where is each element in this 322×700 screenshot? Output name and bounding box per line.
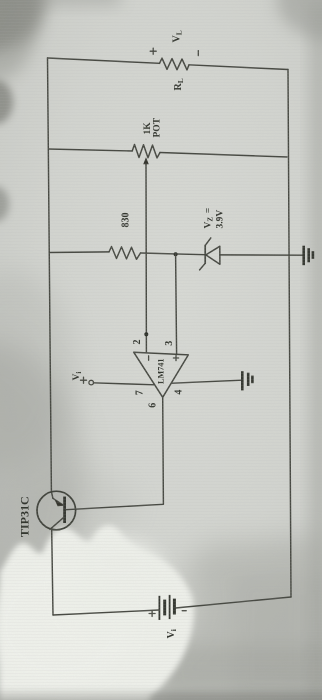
- wire: bottom rail left of battery: [53, 610, 159, 615]
- plus sign inside op-amp (rotated): [175, 355, 177, 360]
- wire: right rail: [288, 70, 291, 598]
- wire: pin 3: [176, 254, 177, 354]
- dark band along bottom edge: [0, 692, 322, 700]
- minus sign at battery: [182, 610, 186, 612]
- potentiometer 1K POT zigzag: [132, 145, 160, 158]
- ground symbol right (rotated): [302, 246, 305, 266]
- plus sign at battery: [151, 611, 153, 617]
- wire: left rail top (corner to transistor): [48, 58, 53, 498]
- ground symbol at pin 4 (rotated): [241, 371, 244, 390]
- top edge slight darkening: [0, 0, 120, 5]
- transistor Q1 TIP31C circle: [37, 491, 76, 530]
- plus sign at op-amp Vi terminal: [83, 377, 85, 383]
- wire: zener to ground (crosses right rail): [220, 254, 303, 256]
- minus sign inside op-amp (rotated): [148, 356, 150, 360]
- plus sign at RL left: [152, 48, 154, 54]
- pot wiper arrow + wire to pin 2: [145, 163, 147, 353]
- wire: 830 row left: [50, 251, 109, 254]
- transistor Q1 base bar: [63, 497, 66, 524]
- transistor Q1 emitter diagonal with arrow: [53, 498, 63, 504]
- resistor RL zigzag: [160, 58, 190, 70]
- resistor 830 zigzag: [109, 247, 141, 260]
- top-left dark corner shading: [0, 0, 46, 52]
- zener diode DZ (cathode bar with bent ends): [204, 245, 206, 263]
- wire: top rail right segment: [189, 65, 288, 70]
- bright cores: [0, 565, 130, 685]
- wire: POT row right: [160, 153, 287, 158]
- battery Vi plates: [158, 596, 160, 620]
- transistor Q1 collector diagonal: [50, 517, 64, 529]
- zener anode triangle: [206, 246, 220, 264]
- input terminal circle Vi: [89, 380, 94, 385]
- bright flash cloud lower-left: [0, 525, 194, 700]
- minus sign at RL right (rotated): [197, 51, 199, 56]
- wire: top rail left segment (emitter node to RL): [48, 58, 160, 63]
- op-amp U1 LM741 triangle: [134, 352, 189, 397]
- soft shade over left-middle (around transistor): [0, 340, 85, 620]
- wire: left rail bottom (transistor to corner): [52, 530, 53, 615]
- left edge dark smudge mid: [0, 186, 9, 222]
- wire: base lead to op-amp output: [66, 397, 163, 509]
- wire: 830 row to zener: [141, 253, 205, 255]
- wire: bottom rail right of battery: [175, 597, 291, 608]
- right edge darkening: [310, 0, 322, 700]
- left edge dark smudge upper: [0, 80, 13, 124]
- bottom-right gray shading: [143, 535, 322, 700]
- junction dot on pin-2 wire: [144, 332, 148, 336]
- junction dot pin 3 tap: [174, 252, 178, 256]
- wire: pin 4 to ground: [172, 380, 241, 383]
- wire: pin 7: [94, 383, 155, 385]
- top-right corner darkening: [277, 0, 322, 40]
- wire: POT row left: [49, 149, 132, 151]
- labels (all rotated 90deg CCW): [18, 30, 226, 638]
